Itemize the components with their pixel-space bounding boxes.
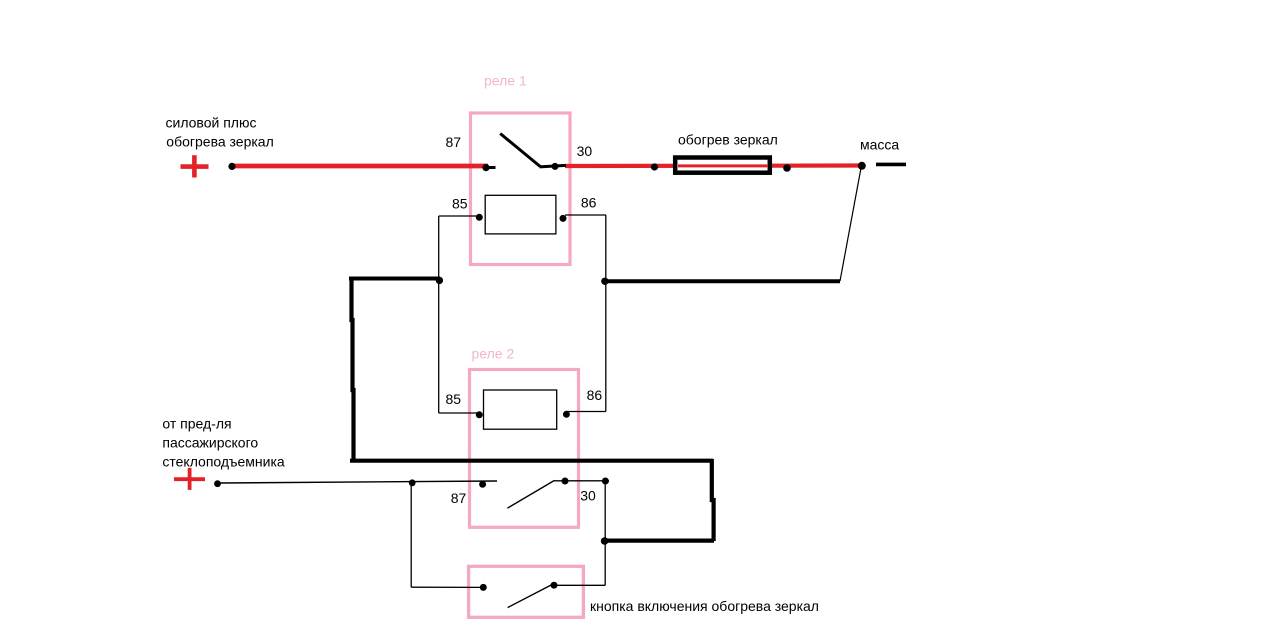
relay1 switch common stub (486, 166, 496, 169)
wire: red power wire to relay1 pin87 (232, 164, 488, 169)
wire: button left vertical drop (410, 483, 412, 587)
svg-text:86: 86 (581, 194, 597, 210)
wire: thick horizontal 86-bus to ground diagonal (606, 279, 840, 283)
node: button left (480, 584, 487, 591)
svg-text:реле 1: реле 1 (484, 73, 527, 89)
svg-text:87: 87 (451, 490, 467, 506)
svg-text:85: 85 (452, 196, 468, 212)
ground symbol (масса) (876, 163, 906, 167)
wire: red wire relay1 pin30 to ground node (565, 163, 861, 168)
node: red wire start (228, 163, 235, 170)
heater element (обогрев зеркал) (675, 158, 770, 173)
wire: relay1 pin86 horizontal (565, 214, 606, 216)
svg-text:силовой плюс: силовой плюс (166, 114, 257, 130)
relay2 coil (484, 390, 557, 429)
wire: relay2 pin86 horizontal (566, 411, 606, 413)
wire: relay2 pin30 horizontal (555, 480, 610, 482)
relay1 switch pin30 stub (540, 165, 567, 167)
relay box U1 (реле 1) (471, 113, 571, 265)
wire: thick bottom horizontal across relay2 (350, 459, 713, 463)
node: relay2 coil 85 (476, 411, 483, 418)
svg-text:85: 85 (446, 391, 462, 407)
wire: button right horizontal (554, 584, 605, 586)
svg-text:30: 30 (577, 143, 593, 159)
node: heater right (783, 164, 791, 172)
svg-text:реле 2: реле 2 (472, 346, 515, 362)
wire: from fuse plus to relay2 pin87 (220, 481, 497, 483)
node: button branch junction (409, 479, 416, 486)
node: bottom bus junction (601, 537, 609, 545)
svg-text:пассажирского: пассажирского (162, 435, 258, 451)
node: heater left (651, 163, 658, 170)
wire: thick left vertical (352, 277, 354, 461)
wire: relay2 pin85 horizontal (439, 412, 480, 414)
svg-text:стеклоподъемника: стеклоподъемника (162, 454, 285, 470)
relay1 switch blade diagonal (500, 134, 540, 167)
power plus P2 (от предохранителя) (174, 468, 205, 490)
node: ground junction (858, 162, 866, 170)
svg-text:30: 30 (580, 488, 596, 504)
node: fuse wire start (214, 480, 221, 487)
node: relay1 pin87 (482, 164, 489, 171)
node: button right (551, 582, 558, 589)
node: relay2 coil 86 (563, 411, 570, 418)
wire: thick right vertical (712, 459, 714, 541)
node: right bus junction (601, 278, 608, 285)
wire: right thin vertical 86 bus (605, 215, 607, 412)
relay1 coil (485, 195, 556, 234)
svg-text:обогрева зеркал: обогрева зеркал (166, 133, 273, 149)
wire: button left horizontal (411, 586, 483, 588)
wire: left thin vertical 85 bus (438, 216, 440, 413)
svg-text:87: 87 (446, 134, 462, 150)
node: relay2 pin87 (479, 481, 486, 488)
svg-text:обогрев зеркал: обогрев зеркал (678, 132, 778, 148)
wire: button blade (508, 585, 552, 608)
node: pin30 bus junction (602, 478, 609, 485)
svg-text:кнопка включения обогрева зерк: кнопка включения обогрева зеркал (590, 598, 819, 614)
wire: thick short horizontal to pin30 bus (605, 538, 714, 542)
node: relay1 pin30 (552, 163, 559, 170)
wire: vertical pin30 to button bus (604, 481, 606, 586)
node: relay2 pin30 (562, 478, 569, 485)
svg-text:от пред-ля: от пред-ля (162, 416, 231, 432)
power plus P1 (силовой плюс) (181, 155, 209, 177)
svg-text:масса: масса (860, 137, 899, 153)
wire: relay2 switch blade (507, 480, 554, 508)
node: left bus junction (436, 277, 443, 284)
relay box U2 (реле 2) (470, 370, 579, 528)
node: relay1 coil 85 (476, 214, 483, 221)
wire: relay1 pin85 horizontal (439, 215, 480, 217)
wire: thick horizontal from 85-bus junction (349, 277, 440, 281)
node: relay1 coil 86 (560, 215, 567, 222)
wire: thin diagonal to ground node (840, 168, 861, 281)
red line through heater (678, 164, 768, 167)
svg-text:86: 86 (587, 387, 603, 403)
switch box SW1 (кнопка) (469, 566, 584, 617)
